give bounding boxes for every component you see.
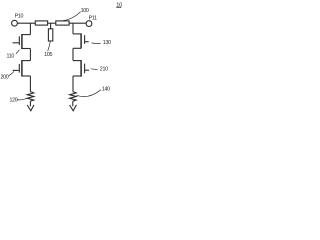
- wire: right rail top: [72, 23, 74, 34]
- gate bar: [18, 36, 20, 45]
- wire: stub to ground left: [29, 101, 31, 106]
- leader 100 (curved): [63, 12, 80, 21]
- svg-text:140: 140: [102, 86, 110, 92]
- channel bar: [80, 33, 82, 48]
- wire R2 to terminal P11: [69, 22, 86, 24]
- gate bar: [84, 35, 86, 44]
- svg-text:100: 100: [81, 8, 89, 14]
- leader 130: [92, 42, 101, 45]
- svg-text:210: 210: [100, 66, 108, 72]
- channel bar: [21, 34, 23, 49]
- leader 140: [76, 90, 101, 97]
- drain lead: [73, 60, 81, 62]
- leader 210: [91, 68, 98, 71]
- leader 120: [17, 98, 28, 100]
- node stub to resistor 105: [50, 23, 52, 29]
- svg-text:P10: P10: [15, 13, 24, 19]
- svg-text:120: 120: [10, 97, 18, 103]
- svg-text:110: 110: [7, 54, 15, 60]
- leader 110: [16, 50, 20, 54]
- wire between resistors: [48, 22, 56, 24]
- svg-text:105: 105: [44, 52, 52, 58]
- channel bar: [21, 60, 23, 76]
- resistor 101 (horizontal box left): [35, 21, 47, 25]
- wire: right rail middle: [72, 48, 74, 60]
- wire: left rail top: [29, 23, 31, 34]
- resistor 105 (vertical box): [48, 29, 52, 41]
- gate lead: [13, 69, 19, 71]
- channel bar: [80, 60, 82, 77]
- source lead: [22, 48, 31, 50]
- gate lead: [85, 69, 89, 71]
- ground arrow right: [70, 105, 77, 111]
- resistor 120 (zigzag): [27, 92, 33, 102]
- terminal P10: [12, 20, 18, 26]
- source lead: [22, 75, 31, 77]
- transistor 110: [13, 34, 31, 49]
- svg-text:130: 130: [103, 40, 111, 46]
- gate bar: [18, 64, 20, 73]
- ground arrow left: [27, 105, 34, 111]
- source lead: [73, 75, 81, 77]
- gate lead: [13, 42, 19, 44]
- drain lead: [22, 60, 31, 62]
- terminal P11: [86, 21, 92, 27]
- transistor 200: [13, 60, 31, 76]
- leader 105: [48, 42, 51, 52]
- wire: left rail middle: [29, 49, 31, 61]
- source lead: [73, 47, 81, 49]
- resistor 102 (horizontal box right): [56, 21, 69, 25]
- svg-text:200: 200: [1, 75, 9, 81]
- wire: right rail lower: [72, 76, 74, 92]
- wire: left rail lower: [29, 76, 31, 92]
- wire: stub to ground right: [72, 101, 74, 106]
- wire P10 to resistor R1: [18, 22, 36, 24]
- leader 200: [9, 71, 14, 75]
- transistor 210: [73, 60, 89, 77]
- drain lead: [73, 33, 81, 35]
- transistor 130: [73, 33, 89, 48]
- svg-text:P11: P11: [89, 15, 97, 21]
- gate lead: [85, 41, 89, 43]
- resistor 140 (zigzag): [70, 92, 76, 102]
- drain lead: [22, 34, 31, 36]
- gate bar: [84, 64, 86, 74]
